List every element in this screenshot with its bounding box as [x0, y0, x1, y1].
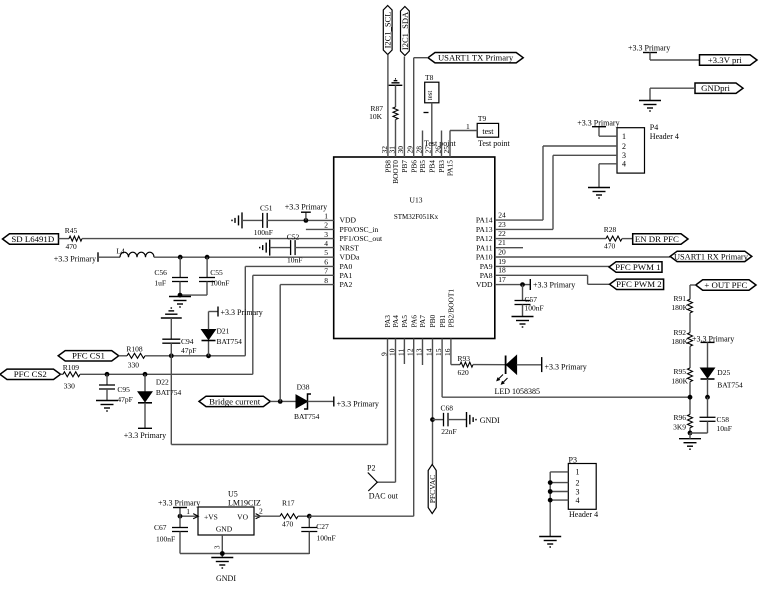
svg-text:PA4: PA4 — [391, 315, 400, 328]
svg-text:R92: R92 — [673, 328, 686, 337]
svg-text:20: 20 — [498, 247, 506, 256]
svg-text:180K: 180K — [671, 376, 688, 385]
svg-text:5: 5 — [324, 248, 328, 257]
svg-text:VDD: VDD — [340, 216, 357, 225]
svg-text:2: 2 — [324, 221, 328, 230]
svg-text:C58: C58 — [717, 415, 730, 424]
svg-text:R17: R17 — [282, 499, 295, 508]
svg-text:C95: C95 — [117, 385, 130, 394]
svg-text:C67: C67 — [154, 523, 167, 532]
svg-text:PA13: PA13 — [476, 225, 493, 234]
svg-text:1: 1 — [324, 211, 328, 220]
svg-text:C52: C52 — [287, 232, 300, 241]
svg-text:P2: P2 — [367, 463, 375, 472]
svg-text:GNDI: GNDI — [216, 574, 236, 583]
svg-text:PB4: PB4 — [428, 160, 437, 173]
svg-text:3: 3 — [214, 545, 222, 549]
svg-text:22: 22 — [498, 229, 506, 238]
svg-text:22nF: 22nF — [441, 427, 456, 436]
svg-text:D22: D22 — [156, 378, 169, 387]
svg-text:PB5: PB5 — [418, 160, 427, 173]
svg-text:PB0: PB0 — [428, 314, 437, 327]
svg-text:T9: T9 — [478, 114, 487, 123]
svg-text:PA5: PA5 — [400, 315, 409, 328]
svg-text:PF1/OSC_out: PF1/OSC_out — [340, 234, 384, 243]
svg-text:R45: R45 — [65, 226, 78, 235]
svg-text:1: 1 — [466, 122, 470, 131]
svg-text:+3.3 Primary: +3.3 Primary — [533, 281, 575, 290]
svg-text:180K: 180K — [671, 337, 688, 346]
svg-text:GNDpri: GNDpri — [701, 83, 730, 93]
svg-text:PFC PWM 2: PFC PWM 2 — [616, 279, 661, 289]
svg-text:C55: C55 — [210, 268, 223, 277]
svg-text:+ OUT PFC: + OUT PFC — [704, 280, 747, 290]
svg-text:Bridge current: Bridge current — [209, 396, 261, 406]
svg-text:180K: 180K — [671, 303, 688, 312]
svg-text:R93: R93 — [458, 354, 471, 363]
svg-text:100nF: 100nF — [317, 534, 336, 543]
svg-text:PB2/BOOT1: PB2/BOOT1 — [447, 289, 456, 328]
svg-text:VO: VO — [237, 513, 248, 522]
svg-text:100nF: 100nF — [254, 228, 273, 237]
svg-text:+3.3V pri: +3.3V pri — [708, 55, 743, 65]
svg-text:47pF: 47pF — [117, 395, 132, 404]
svg-text:USART1 RX Primary: USART1 RX Primary — [674, 252, 749, 261]
svg-text:+3.3 Primary: +3.3 Primary — [221, 308, 263, 317]
svg-text:T8: T8 — [425, 73, 434, 82]
svg-text:Test point: Test point — [424, 139, 456, 148]
svg-text:+3.3 Primary: +3.3 Primary — [628, 44, 670, 53]
svg-text:PFC CS1: PFC CS1 — [72, 351, 105, 361]
svg-text:+3.3 Primary: +3.3 Primary — [337, 399, 379, 408]
svg-text:test: test — [482, 127, 494, 136]
svg-text:PA14: PA14 — [476, 216, 493, 225]
svg-text:C27: C27 — [316, 522, 329, 531]
svg-text:4: 4 — [622, 160, 626, 169]
svg-text:D38: D38 — [297, 383, 310, 392]
svg-text:23: 23 — [498, 220, 506, 229]
svg-text:P3: P3 — [569, 456, 577, 465]
svg-text:STM32F051Kx: STM32F051Kx — [394, 213, 439, 221]
svg-text:BAT754: BAT754 — [217, 337, 243, 346]
svg-text:PB6: PB6 — [409, 160, 418, 173]
svg-text:PA1: PA1 — [340, 271, 353, 280]
svg-text:+3.3 Primary: +3.3 Primary — [577, 118, 619, 127]
svg-text:P4: P4 — [650, 123, 658, 132]
svg-text:10nF: 10nF — [717, 424, 732, 433]
svg-text:8: 8 — [324, 276, 328, 285]
svg-text:1: 1 — [576, 468, 580, 477]
svg-text:D25: D25 — [717, 368, 730, 377]
svg-text:D21: D21 — [217, 327, 230, 336]
svg-text:100nF: 100nF — [156, 535, 175, 544]
svg-text:BAT754: BAT754 — [156, 388, 182, 397]
svg-text:PFCVAC: PFCVAC — [428, 475, 437, 504]
svg-text:U5: U5 — [228, 490, 238, 499]
svg-text:3K9: 3K9 — [673, 423, 686, 432]
svg-text:PA10: PA10 — [476, 253, 493, 262]
svg-text:USART1 TX Primary: USART1 TX Primary — [438, 53, 514, 63]
svg-text:DAC out: DAC out — [369, 492, 399, 501]
svg-text:Header 4: Header 4 — [650, 132, 679, 141]
svg-text:BOOT0: BOOT0 — [391, 160, 400, 184]
svg-text:GNDI: GNDI — [480, 416, 500, 425]
svg-text:Header 4: Header 4 — [569, 510, 598, 519]
svg-text:7: 7 — [324, 267, 328, 276]
svg-text:PA11: PA11 — [476, 243, 493, 252]
svg-text:100nF: 100nF — [525, 304, 544, 313]
svg-text:R109: R109 — [63, 363, 80, 372]
svg-text:BAT754: BAT754 — [717, 381, 743, 390]
svg-text:+VS: +VS — [204, 513, 218, 522]
svg-text:2: 2 — [576, 478, 580, 487]
svg-text:Test point: Test point — [478, 139, 510, 148]
svg-text:24: 24 — [498, 211, 506, 220]
svg-text:1: 1 — [622, 132, 626, 141]
svg-text:+3.3 Primary: +3.3 Primary — [545, 362, 587, 371]
svg-text:+3.3 Primary: +3.3 Primary — [285, 203, 327, 212]
svg-text:470: 470 — [66, 242, 78, 251]
svg-text:BAT754: BAT754 — [294, 412, 320, 421]
svg-text:620: 620 — [458, 368, 470, 377]
svg-text:4: 4 — [324, 239, 328, 248]
svg-text:PA2: PA2 — [340, 280, 353, 289]
svg-text:test: test — [426, 91, 434, 101]
svg-text:R91: R91 — [673, 294, 686, 303]
svg-text:PFC CS2: PFC CS2 — [14, 369, 47, 379]
svg-text:1uF: 1uF — [154, 279, 166, 288]
svg-text:PB1: PB1 — [438, 314, 447, 327]
svg-text:PA15: PA15 — [446, 160, 455, 176]
svg-text:PA0: PA0 — [340, 262, 353, 271]
svg-text:2: 2 — [259, 507, 263, 516]
svg-text:LED 1058385: LED 1058385 — [495, 387, 541, 396]
svg-text:330: 330 — [128, 360, 140, 369]
svg-text:1: 1 — [186, 507, 190, 516]
svg-text:LM19CIZ: LM19CIZ — [228, 499, 261, 508]
svg-text:VDD: VDD — [476, 280, 493, 289]
svg-text:C57: C57 — [525, 295, 538, 304]
svg-text:PB7: PB7 — [400, 160, 409, 173]
svg-text:+3.3 Primary: +3.3 Primary — [54, 255, 96, 264]
svg-text:6: 6 — [324, 258, 328, 267]
svg-text:R95: R95 — [673, 367, 686, 376]
svg-text:R96: R96 — [673, 413, 686, 422]
svg-text:PA7: PA7 — [418, 315, 427, 328]
svg-text:21: 21 — [498, 238, 506, 247]
svg-text:C56: C56 — [154, 268, 167, 277]
svg-text:PFC PWM 1: PFC PWM 1 — [615, 262, 660, 272]
svg-text:GND: GND — [216, 525, 233, 534]
svg-text:I2C1_SDA: I2C1_SDA — [400, 11, 410, 50]
svg-text:VDDa: VDDa — [340, 253, 360, 262]
svg-text:R28: R28 — [604, 225, 617, 234]
svg-text:C94: C94 — [181, 337, 194, 346]
svg-text:R108: R108 — [126, 344, 143, 353]
svg-text:C51: C51 — [260, 204, 273, 213]
svg-text:47pF: 47pF — [181, 346, 196, 355]
svg-text:100nF: 100nF — [210, 279, 229, 288]
svg-text:EN DR PFC: EN DR PFC — [635, 234, 679, 244]
svg-text:19: 19 — [498, 257, 506, 266]
svg-text:C68: C68 — [441, 404, 454, 413]
svg-text:2: 2 — [622, 142, 626, 151]
svg-text:PA6: PA6 — [409, 315, 418, 328]
svg-text:+3.3 Primary: +3.3 Primary — [124, 431, 166, 440]
svg-text:PF0/OSC_in: PF0/OSC_in — [340, 225, 379, 234]
svg-text:330: 330 — [64, 382, 76, 391]
svg-text:PA8: PA8 — [480, 271, 493, 280]
svg-text:PA9: PA9 — [480, 262, 493, 271]
svg-text:PA12: PA12 — [476, 234, 493, 243]
svg-text:470: 470 — [282, 520, 294, 529]
svg-text:L4: L4 — [116, 246, 125, 255]
svg-text:470: 470 — [604, 242, 616, 251]
svg-text:4: 4 — [576, 496, 580, 505]
svg-text:3: 3 — [324, 230, 328, 239]
svg-text:U13: U13 — [410, 196, 423, 205]
svg-text:I2C1_SCL: I2C1_SCL — [383, 12, 393, 49]
svg-text:17: 17 — [498, 275, 506, 284]
svg-text:+3.3 Primary: +3.3 Primary — [158, 499, 200, 508]
svg-text:10K: 10K — [369, 112, 383, 121]
svg-text:SD L6491D: SD L6491D — [11, 234, 54, 244]
svg-text:NRST: NRST — [340, 243, 360, 252]
